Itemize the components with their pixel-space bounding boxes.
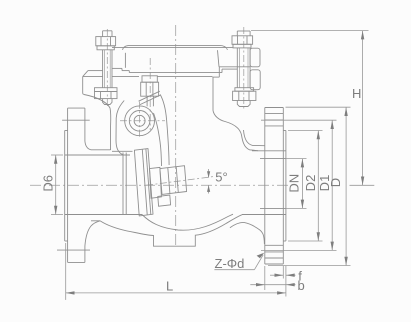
svg-text:D2: D2 bbox=[303, 175, 318, 192]
svg-text:D: D bbox=[328, 178, 343, 187]
svg-text:DN: DN bbox=[287, 174, 302, 193]
svg-text:D6: D6 bbox=[41, 175, 56, 192]
svg-text:b: b bbox=[298, 278, 305, 293]
svg-text:5°: 5° bbox=[215, 170, 227, 185]
svg-text:Z-Φd: Z-Φd bbox=[215, 256, 245, 271]
svg-text:L: L bbox=[166, 279, 173, 294]
svg-text:H: H bbox=[352, 86, 361, 101]
